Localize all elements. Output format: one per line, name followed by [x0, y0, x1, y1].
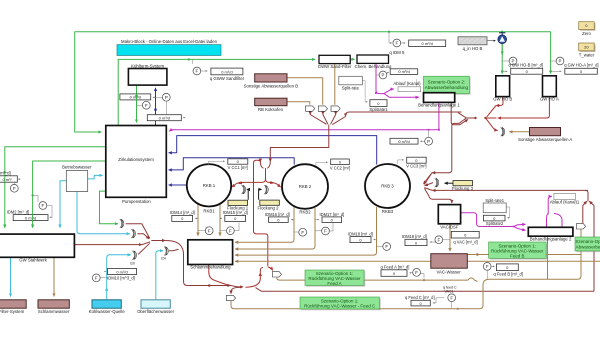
- svg-text:GWW Sand-Filter: GWW Sand-Filter: [318, 64, 352, 69]
- wire brown sludge RKB1 b: [219, 205, 221, 236]
- mixer crescent pond A: [120, 219, 124, 228]
- source Sonstige Abwasserquellen B: [255, 74, 287, 82]
- mixer crescent pond C: [132, 251, 136, 260]
- svg-text:RKB 2: RKB 2: [299, 184, 312, 189]
- svg-text:Sonstige Abwasserquellen A: Sonstige Abwasserquellen A: [518, 137, 572, 142]
- wire brown sludge RKB3: [235, 207, 377, 255]
- meter q Feed B: [483, 263, 491, 271]
- svg-text:Filter-System: Filter-System: [0, 309, 25, 314]
- svg-text:Abwasserbehandlung: Abwasserbehandlung: [425, 85, 469, 90]
- svg-text:Zirkulationssystem: Zirkulationssystem: [118, 157, 154, 162]
- svg-text:VAC1: VAC1: [445, 289, 454, 293]
- mixer crescent RKB3: [435, 178, 439, 187]
- block VAC/DSF: [438, 205, 460, 224]
- wire maroon from GW collection to tags junction: [346, 112, 462, 117]
- wire red RKB3 overflow to VAC/DSF: [425, 189, 452, 204]
- wire black flockung1 doser: [247, 189, 248, 199]
- wire green cooling tower down to circulation: [136, 85, 138, 122]
- wire maroon mixer D link: [169, 249, 179, 250]
- annotation Szenario-Option 1 Feed A: [306, 271, 365, 286]
- wire red GW HO B down: [496, 97, 503, 106]
- wire brown sludge RKB2 b: [235, 208, 315, 249]
- pond RKB 1: [187, 164, 231, 206]
- wire red GW HO A down: [498, 97, 550, 118]
- svg-text:VAC-Wasser: VAC-Wasser: [437, 270, 462, 275]
- wire maroon main collect to south: [151, 240, 165, 242]
- svg-text:Rückführung VAC-Wasser - Feed: Rückführung VAC-Wasser - Feed C: [304, 304, 376, 309]
- svg-text:0 m³/: 0 m³/: [2, 177, 12, 182]
- wire brown vac-wasser feed B: [468, 254, 480, 256]
- wire brown tag T2 stub: [580, 229, 582, 255]
- mixer crescent pond D: [164, 247, 168, 256]
- svg-text:RKB 1: RKB 1: [203, 183, 216, 188]
- wire tan sonstige A to mixer: [509, 131, 529, 133]
- wire magenta vac/dsf to behandlungsanlage2: [461, 213, 511, 227]
- svg-text:0 m³/d: 0 m³/d: [422, 41, 433, 46]
- mixer crescent pond B: [131, 229, 135, 238]
- wire magenta chem behandlung down: [376, 64, 419, 98]
- svg-text:IDM2 [m³_d]: IDM2 [m³_d]: [7, 209, 30, 214]
- wire cyan betriebswasser to pumpenstation: [88, 175, 103, 179]
- svg-text:RKB1: RKB1: [203, 208, 215, 213]
- wire maroon pond junction C output: [138, 243, 150, 254]
- block Zirkulationssystem / Pumpenstation: [106, 126, 167, 198]
- svg-text:RKB2: RKB2: [299, 210, 311, 215]
- svg-text:Sonstige Abwasserquellen B: Sonstige Abwasserquellen B: [244, 83, 299, 88]
- svg-text:Behandlungsanlage 2: Behandlungsanlage 2: [530, 236, 572, 241]
- block Schlammbehandlung: [188, 240, 233, 265]
- mixer crescent GW: [501, 127, 505, 136]
- svg-text:q Feed A [m³_d]: q Feed A [m³_d]: [381, 265, 410, 270]
- meter q GWW Sandfilter: [192, 59, 194, 64]
- wire maroon long bottom return: [256, 288, 595, 292]
- svg-text:q IDM 5: q IDM 5: [389, 50, 405, 55]
- wire cyan betriebswasser left to GW Stahlwerk: [60, 181, 66, 228]
- svg-text:Szenario-Option 2:: Szenario-Option 2:: [428, 79, 466, 84]
- source VAC-Wasser: [431, 254, 468, 269]
- wire red junction to sonstige A mixer: [486, 119, 498, 131]
- wire cyan kuehlwasser-quelle riser: [106, 288, 108, 300]
- wire red return right riser: [589, 201, 594, 291]
- svg-text:20: 20: [584, 45, 589, 50]
- annotation Szenario-Option Abwasserbehandlung right: [576, 238, 600, 252]
- wire red south junction2 up branch: [246, 273, 261, 287]
- svg-text:IDM17 [m³_d]: IDM17 [m³_d]: [320, 212, 345, 217]
- pump symbol: [498, 35, 507, 44]
- wire overlays across meter blocks: [136, 94, 138, 100]
- svg-text:Pumpenstation: Pumpenstation: [122, 199, 151, 204]
- wire navy circulation to cooling tower: [155, 107, 157, 125]
- wire brown sludge RKB2 a: [235, 207, 294, 242]
- meter q GW HO-B: [502, 60, 509, 62]
- node red junction dots: [474, 117, 476, 119]
- wire magenta behandlungsanlage2 to ablauf kanal1: [547, 213, 549, 227]
- meter P chem: [376, 74, 380, 76]
- wire brown sludge RKB1 a: [197, 205, 199, 236]
- wire gray stub above ablauf kanal: [416, 79, 418, 87]
- svg-text:q GW HO-A [m³_d]: q GW HO-A [m³_d]: [564, 63, 598, 68]
- wire red collection Y to left: [458, 113, 476, 118]
- wire red GW Stahlwerk out right: [75, 244, 142, 246]
- wire brown RB koksofen to tag1: [287, 102, 310, 105]
- svg-text:0 m³/d: 0 m³/d: [221, 69, 232, 74]
- svg-text:Kühlwasser-Quelle: Kühlwasser-Quelle: [89, 309, 126, 314]
- svg-text:Abwasserbe: Abwasserbe: [576, 244, 600, 249]
- annotation Szenario-Option 2: [425, 78, 471, 95]
- wire gray splitrate to display: [363, 81, 368, 102]
- block Ablauf (Kanal)1: [554, 193, 576, 199]
- wire navy RKB3 top to pumpenstation: [169, 136, 377, 165]
- tag T3: [226, 295, 235, 300]
- svg-text:V CC1 [m³]: V CC1 [m³]: [228, 165, 248, 170]
- svg-text:IDM14 [m³_d]: IDM14 [m³_d]: [170, 210, 195, 215]
- svg-text:I24: I24: [161, 257, 166, 261]
- display Splitrate2: [483, 215, 505, 221]
- wire cyan GW Stahlwerk to filter-system: [10, 258, 12, 297]
- block GWW Sand-Filter: [319, 55, 350, 63]
- wire green pump to GW HO B: [501, 44, 503, 74]
- wire magenta branch to ablauf kanal: [384, 89, 394, 94]
- block Chem. Behandlung: [357, 55, 389, 63]
- svg-text:IDM10 [m^3_d]: IDM10 [m^3_d]: [107, 275, 135, 280]
- svg-text:RKB3: RKB3: [382, 209, 394, 214]
- svg-text:0 m³/d: 0 m³/d: [159, 116, 170, 121]
- svg-text:Zero: Zero: [582, 31, 591, 36]
- annotation Szenario-Option 1 Feed C: [301, 298, 380, 310]
- svg-text:0 m³/d: 0 m³/d: [398, 139, 409, 144]
- svg-text:Makro-Block - Online-Daten aus: Makro-Block - Online-Daten aus Excel-Dat…: [121, 39, 218, 44]
- source q_in HO B: [458, 37, 487, 45]
- doser Flockung 1: [228, 200, 248, 205]
- wire navy RKB1 to pumpenstation: [169, 184, 188, 186]
- svg-text:IDM15 [m³_d]: IDM15 [m³_d]: [223, 210, 248, 215]
- svg-text:V CC2 [m³]: V CC2 [m³]: [330, 165, 350, 170]
- display q VAC: [451, 231, 479, 238]
- svg-text:0 m³/d: 0 m³/d: [116, 269, 127, 274]
- wire green sandfilter to chem: [351, 58, 355, 60]
- wire brown behandlungsanlage2 down: [547, 236, 549, 279]
- svg-text:Ablauf (Kanal): Ablauf (Kanal): [393, 81, 421, 86]
- wire brown sonstige B to tag2: [287, 78, 323, 105]
- tag goto 3: [331, 106, 340, 111]
- wire brown collection return left: [480, 255, 582, 309]
- wire brown sand filter to tag3: [334, 64, 336, 105]
- wire green circulation out left lower: [33, 161, 106, 228]
- svg-text:Split-rate1: Split-rate1: [485, 198, 504, 203]
- block Behandlungsanlage 2: [528, 227, 573, 236]
- meter q IDM 5: [389, 32, 392, 43]
- wire cyan betriebswasser bottom to pond junction B: [77, 192, 130, 234]
- svg-text:0 m³/d: 0 m³/d: [398, 69, 409, 74]
- wire brown bottom feed C line: [231, 301, 480, 309]
- block GW Stahlwerk: [0, 234, 74, 257]
- meter q GW HO-A: [549, 60, 556, 62]
- svg-text:Szenario-Option 1:: Szenario-Option 1:: [321, 298, 359, 303]
- source Sonstige Abwasserquellen A: [530, 128, 561, 136]
- wire black flockung2 doser: [259, 189, 262, 199]
- svg-text:q Feed B [m³_d]: q Feed B [m³_d]: [494, 272, 523, 277]
- wire green cooling return loop top: [75, 32, 502, 132]
- svg-text:Split-rate: Split-rate: [342, 86, 360, 91]
- display V CC3: [398, 160, 404, 164]
- svg-text:GW Stahlwerk: GW Stahlwerk: [19, 258, 47, 263]
- wire navy RKB2 top to pumpenstation: [169, 158, 295, 170]
- tag goto 2: [318, 106, 327, 111]
- block Split-rate: [339, 76, 363, 85]
- tag T1: [272, 272, 281, 277]
- doser Flockung 3: [453, 181, 473, 186]
- wire red south junction1: [212, 285, 231, 287]
- wire maroon Y into RKB feed bus: [269, 160, 271, 162]
- tag T2: [576, 224, 585, 229]
- svg-text:VAC/DSF: VAC/DSF: [440, 224, 459, 229]
- tag goto 1: [306, 106, 315, 111]
- svg-text:T_water: T_water: [579, 53, 595, 58]
- svg-text:0 m³/d: 0 m³/d: [25, 215, 36, 220]
- svg-text:Betriebswasser: Betriebswasser: [62, 165, 92, 170]
- wire magenta main to zirkulationssystem: [169, 130, 439, 132]
- wire green circulation out left upper: [5, 147, 106, 228]
- svg-text:q Feed C [m³_d]: q Feed C [m³_d]: [405, 295, 435, 300]
- display meter RKB3 inflow: [390, 138, 418, 144]
- source Oberflaechenwasser: [141, 300, 170, 308]
- wire brown tag T1 to feed A line: [277, 277, 468, 280]
- source Filter-System: [0, 300, 26, 308]
- svg-text:Flockung 2: Flockung 2: [257, 205, 279, 210]
- source RB Koksofen: [255, 98, 287, 106]
- svg-text:Schlammwasser: Schlammwasser: [38, 309, 70, 314]
- wire maroon pond junction B output: [137, 234, 149, 239]
- svg-text:Flockung 3: Flockung 3: [452, 186, 474, 191]
- svg-text:V CC3 [m³]: V CC3 [m³]: [406, 164, 426, 169]
- wire red RKB feed arrows into RKB3: [424, 175, 431, 185]
- svg-text:Ablauf (Kanal)1: Ablauf (Kanal)1: [550, 200, 580, 205]
- wire cyan oberflaechenwasser riser: [156, 251, 163, 300]
- svg-text:Behandlungsanlage 1: Behandlungsanlage 1: [418, 103, 460, 108]
- wire red stub to tag T3: [231, 287, 242, 294]
- svg-text:q VAC [m³_d]: q VAC [m³_d]: [453, 239, 477, 244]
- svg-text:IDM19 [m³_d]: IDM19 [m³_d]: [402, 234, 427, 239]
- doser Flockung 2: [260, 200, 280, 205]
- mixer crescent RKB1: [242, 185, 246, 194]
- svg-text:q GWW Sandfilter: q GWW Sandfilter: [210, 76, 245, 81]
- svg-text:RKB 3: RKB 3: [381, 184, 394, 189]
- svg-text:Feed B: Feed B: [510, 254, 525, 259]
- svg-text:Chem. Behandlung: Chem. Behandlung: [355, 64, 392, 69]
- svg-text:Kühlturm-System: Kühlturm-System: [131, 63, 164, 68]
- wire brown GW stahlwerk to schlammwasser: [53, 258, 55, 297]
- wire brown vac-wasser to schlammbehandlung: [235, 260, 431, 262]
- svg-text:Oberflächenwasser: Oberflächenwasser: [137, 309, 175, 314]
- wire maroon waste main down-left: [270, 125, 329, 160]
- svg-text:Schlammbehandlung: Schlammbehandlung: [190, 264, 231, 269]
- svg-text:q_in HO B: q_in HO B: [463, 46, 483, 51]
- svg-text:RB Koksofen: RB Koksofen: [258, 107, 284, 112]
- wire maroon pond junction A output: [126, 224, 150, 239]
- block Makro cyan: [117, 45, 221, 56]
- svg-text:GW HO A: GW HO A: [540, 96, 559, 101]
- const Zero: [580, 23, 596, 31]
- wire brown vac/dsf to vac-wasser: [449, 224, 451, 251]
- block Behandlungsanlage 1: [424, 93, 455, 103]
- wire red tag T1 branch: [268, 267, 273, 270]
- display V CC1: [208, 161, 224, 165]
- svg-text:IDM18 [m³_d]: IDM18 [m³_d]: [348, 232, 373, 237]
- wire maroon tag outputs converge: [309, 112, 311, 115]
- svg-text:I20: I20: [130, 262, 135, 266]
- svg-text:Szenario-Op: Szenario-Op: [575, 239, 600, 244]
- wire green pumpenstation to pond junction: [100, 191, 119, 224]
- node green taps: [388, 31, 390, 33]
- wire green to GW HO A: [502, 32, 551, 74]
- svg-text:q GW HO-B [m³_d]: q GW HO-B [m³_d]: [509, 63, 544, 68]
- display V CC2: [316, 162, 328, 166]
- wire red behandlungsanlage1 out to collection: [451, 103, 468, 125]
- meter circulation top: [120, 94, 151, 100]
- wire red bus split to RKB1 and RKB2: [232, 168, 266, 187]
- block GW HO B: [496, 76, 510, 97]
- wire red RKB3 right inputs: [424, 173, 432, 185]
- wire red riser from bottom to RKB bus: [254, 160, 268, 266]
- pond RKB 2: [282, 164, 328, 209]
- pond RKB 3: [365, 164, 410, 208]
- svg-text:GW HO B: GW HO B: [493, 96, 512, 101]
- mixer crescent RKB2: [264, 185, 268, 194]
- source Kuehlwasser-Quelle: [92, 300, 121, 308]
- svg-text:Splitrate2: Splitrate2: [486, 221, 504, 226]
- svg-text:Feed A: Feed A: [327, 281, 341, 286]
- svg-text:IDM16 [m³_d]: IDM16 [m³_d]: [265, 212, 290, 217]
- source Schlammwasser: [38, 300, 69, 308]
- display Splitrate1: [370, 100, 387, 107]
- svg-text:[m³_d]: [m³_d]: [0, 171, 11, 176]
- wire black flockung3 doser: [445, 182, 454, 184]
- annotation Szenario-Option 1 Feed B: [490, 243, 548, 259]
- block GW HO A: [543, 76, 557, 97]
- wire red schlammbehandlung out: [209, 264, 231, 285]
- const T_water: [580, 44, 596, 52]
- svg-text:Splitrate1: Splitrate1: [369, 107, 388, 112]
- wire green circulation supply to sand filter: [118, 59, 315, 125]
- wire brown vac-wasser out right: [468, 260, 600, 262]
- meter IDM10: [104, 271, 106, 273]
- wire magenta behandlungsanlage1 down to main line: [438, 103, 440, 130]
